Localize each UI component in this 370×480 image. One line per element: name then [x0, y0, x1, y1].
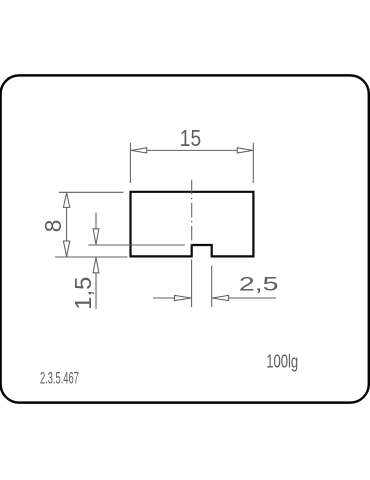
dim 1,5 upper arrowhead (down) — [93, 229, 99, 245]
dim 15 arrowhead right — [237, 148, 253, 153]
dim 15 arrowhead left — [131, 148, 147, 153]
dim 8 extension line top — [59, 191, 124, 193]
svg-text:2.3.5.467: 2.3.5.467 — [40, 370, 79, 388]
svg-text:1,5: 1,5 — [70, 277, 96, 310]
svg-text:2,5: 2,5 — [239, 274, 279, 296]
vertical centerline (dash-dot) — [191, 180, 193, 246]
svg-text:15: 15 — [180, 125, 201, 151]
dim 1,5 lower arrowhead (up) — [93, 258, 99, 273]
dim 2,5 arrowhead pointing right — [175, 295, 192, 300]
dim 15 extension line right — [252, 143, 254, 183]
dim 2,5 extension line right (below notch) — [211, 266, 213, 308]
dim 8 arrowhead down — [63, 241, 69, 257]
svg-text:100lg: 100lg — [266, 351, 298, 372]
dim 2,5 arrowhead pointing left — [212, 295, 228, 300]
dim 8 extension line bottom — [55, 256, 128, 258]
dim 15 extension line left — [129, 143, 131, 183]
dim 15 dimension line — [147, 149, 237, 151]
dim 2,5 dimension tail left — [153, 297, 175, 299]
dim 2,5 dimension tail right — [229, 297, 276, 299]
dim 1,5 lower leader line — [95, 273, 97, 309]
sheet border (rounded) — [1, 75, 369, 402]
dim 2,5 extension line left (below notch) — [191, 260, 193, 308]
dim 8 arrowhead up — [63, 193, 69, 208]
dim 1,5 extension line (notch top, through part) — [88, 244, 185, 246]
part outline (rectangle with bottom notch) — [131, 192, 254, 257]
svg-text:8: 8 — [40, 220, 66, 233]
dim 8 dimension line — [66, 207, 68, 241]
dim 1,5 upper leader line — [95, 213, 97, 229]
